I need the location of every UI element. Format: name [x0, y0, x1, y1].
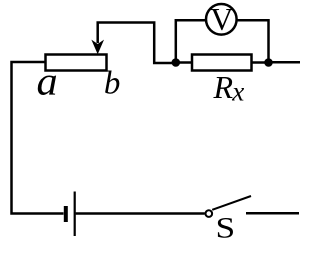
- svg-text:a: a: [37, 59, 58, 104]
- svg-text:x: x: [231, 77, 244, 107]
- svg-text:V: V: [210, 1, 233, 37]
- svg-text:b: b: [104, 66, 121, 102]
- svg-text:S: S: [216, 212, 236, 245]
- svg-text:R: R: [213, 69, 234, 105]
